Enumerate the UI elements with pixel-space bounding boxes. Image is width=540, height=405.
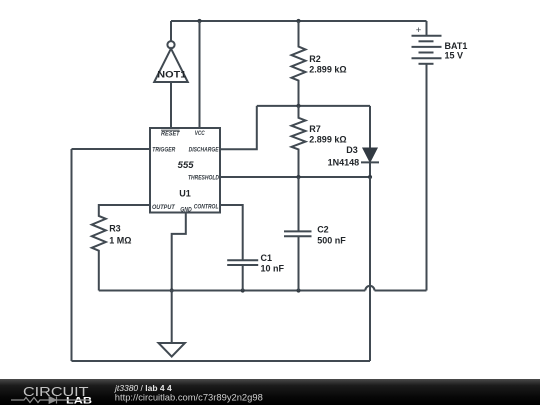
node C1 junction on bottom rail: [241, 288, 245, 292]
node VCC junction on top rail: [197, 19, 201, 23]
svg-text:15 V: 15 V: [445, 51, 464, 61]
resistor R7: [292, 106, 347, 177]
wire discharge net horizontal: [257, 105, 370, 107]
svg-text:VCC: VCC: [195, 131, 206, 137]
svg-text:C1: C1: [261, 253, 273, 263]
wire GND pin path: [172, 213, 186, 291]
svg-text:DISCHARGE: DISCHARGE: [189, 148, 220, 154]
svg-text:D3: D3: [346, 145, 358, 155]
svg-text:R7: R7: [309, 124, 321, 134]
svg-text:OUTPUT: OUTPUT: [152, 205, 176, 211]
logo wire doodle with resistor and diode: [11, 397, 91, 404]
svg-text:500 nF: 500 nF: [317, 235, 346, 245]
svg-text:2.899 kΩ: 2.899 kΩ: [309, 64, 346, 74]
op-amp NOT1 triangle: [154, 49, 188, 82]
wire DISCHARGE pin to net: [220, 106, 257, 149]
svg-text:CONTROL: CONTROL: [194, 205, 219, 211]
wire feedback left vertical: [71, 149, 73, 361]
wire feedback bottom horizontal: [72, 360, 371, 362]
wire THRESHOLD net: [220, 176, 370, 178]
svg-text:C2: C2: [317, 224, 329, 234]
svg-text:1 MΩ: 1 MΩ: [109, 236, 131, 246]
svg-text:NOT1: NOT1: [157, 69, 186, 79]
svg-text:1N4148: 1N4148: [328, 157, 360, 167]
wire ground stem: [171, 291, 173, 344]
node R2 junction on top rail: [296, 19, 300, 23]
svg-text:GND: GND: [180, 207, 192, 213]
resistor R3: [92, 205, 150, 291]
node R2/R7 junction: [296, 104, 300, 108]
ground: [159, 343, 185, 357]
node D3 junction on threshold net: [368, 175, 372, 179]
capacitor C2: [284, 177, 346, 291]
svg-text:http://circuitlab.com/c73r89y2: http://circuitlab.com/c73r89y2n2g98: [115, 392, 263, 402]
wire VCC drop: [199, 21, 201, 128]
svg-text:R3: R3: [109, 223, 121, 233]
node R7/C2 junction on threshold net: [296, 175, 300, 179]
wire top rail: [171, 20, 427, 22]
footer bar: [0, 379, 540, 405]
svg-text:THRESHOLD: THRESHOLD: [188, 176, 220, 182]
chip U1 555 body: [150, 128, 220, 213]
diode D3: [328, 106, 379, 177]
battery BAT1: [412, 21, 468, 291]
svg-text:R2: R2: [309, 54, 321, 64]
wire NOT1 output stem: [170, 21, 172, 41]
wire TRIGGER pin lead: [72, 148, 151, 150]
svg-text:10 nF: 10 nF: [261, 263, 285, 273]
wire bottom rail right of hop: [375, 290, 427, 292]
wire feedback vertical from threshold: [369, 177, 371, 361]
wire bottom rail left of hop: [99, 290, 366, 292]
svg-text:555: 555: [178, 160, 195, 171]
svg-text:RESET: RESET: [161, 131, 181, 137]
wire hop over feedback wire: [365, 286, 374, 291]
svg-text:U1: U1: [179, 188, 191, 198]
svg-text:+: +: [416, 25, 422, 36]
svg-text:2.899 kΩ: 2.899 kΩ: [309, 135, 346, 145]
svg-text:TRIGGER: TRIGGER: [152, 147, 176, 153]
resistor R2: [292, 21, 347, 106]
node C2 junction on bottom rail: [296, 288, 300, 292]
capacitor C1: [220, 205, 285, 291]
wire NOT1 input to RESET: [170, 82, 172, 128]
svg-text:BAT1: BAT1: [445, 41, 468, 51]
node GND junction on bottom rail: [170, 288, 174, 292]
op-amp NOT1 inverter bubble: [167, 41, 174, 48]
